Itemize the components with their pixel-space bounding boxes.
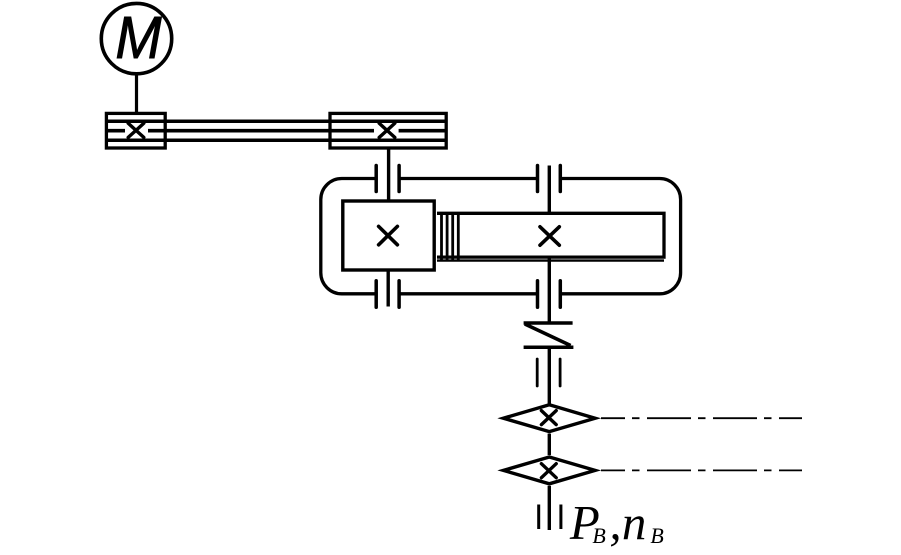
axis centerline of wheel D2 xyxy=(601,469,802,471)
pinion Z2 xyxy=(437,213,664,257)
chain wheel D1 xyxy=(503,405,595,432)
shaft between wheels xyxy=(548,434,551,456)
axis centerline of wheel D1 xyxy=(601,417,802,419)
shaft mark x on wheel D1 xyxy=(541,411,556,425)
output shaft II lower xyxy=(548,347,551,404)
housing gap masks xyxy=(378,172,559,300)
pulley P1 xyxy=(106,113,165,148)
belt shaft mid line xyxy=(105,129,448,133)
bearing B2 (output top) xyxy=(538,166,561,192)
gear Z1 lower shaft stub xyxy=(387,270,390,307)
output shaft II top stub xyxy=(548,166,551,214)
chain wheel D2 xyxy=(503,457,595,484)
shaft end tick right xyxy=(559,505,562,530)
svg-text:M: M xyxy=(115,5,161,71)
belt top line xyxy=(105,119,448,123)
bearing B3 (input bottom) xyxy=(376,281,399,307)
motor shaft xyxy=(135,75,138,113)
pulley P2 xyxy=(330,113,446,148)
motor M circle xyxy=(101,3,171,73)
gear mesh hatch xyxy=(442,212,459,261)
shaft mark x on gear Z1 xyxy=(379,226,398,244)
svg-text:PB,nB: PB,nB xyxy=(569,495,664,550)
shaft mark x on wheel D2 xyxy=(541,464,556,478)
output shaft end xyxy=(548,486,551,530)
output shaft II xyxy=(548,257,551,323)
bearing B1 (input top) xyxy=(376,166,399,192)
belt bottom line xyxy=(105,138,448,142)
shaft break symbol xyxy=(524,323,574,347)
shaft end tick left xyxy=(537,505,540,530)
gear Z1 xyxy=(343,201,434,270)
shaft mark x on pulley P1 xyxy=(128,123,144,137)
input shaft I xyxy=(387,148,390,202)
bearing B4 (output bottom) xyxy=(538,281,561,307)
shaft mark x on pulley P2 xyxy=(379,123,395,137)
shaft mark x on pinion Z2 xyxy=(540,227,559,245)
coupling xyxy=(537,359,560,386)
pinion Z2 lower line xyxy=(437,259,664,261)
gearbox housing xyxy=(321,179,681,294)
